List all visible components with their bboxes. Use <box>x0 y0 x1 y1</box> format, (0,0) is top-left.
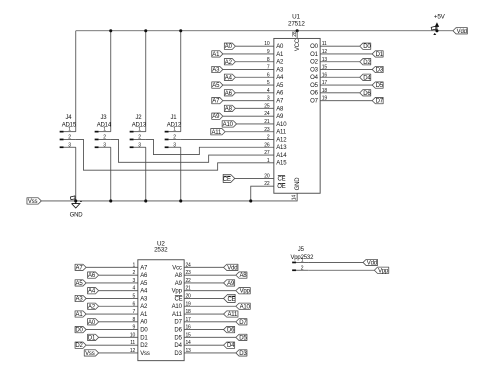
wire U1 O5 to D5 label <box>320 84 372 86</box>
svg-text:A0: A0 <box>276 44 284 50</box>
svg-text:A5: A5 <box>212 83 220 89</box>
svg-text:A13: A13 <box>276 145 287 151</box>
svg-text:D6: D6 <box>363 91 371 97</box>
svg-text:3: 3 <box>173 142 176 148</box>
svg-text:GND: GND <box>70 213 84 219</box>
wire A10 label to U1 <box>237 123 274 125</box>
svg-text:27512: 27512 <box>288 21 305 28</box>
junction <box>109 29 112 32</box>
global label D6 (U2 right) <box>224 326 235 332</box>
svg-text:A3: A3 <box>212 68 220 74</box>
svg-text:A11: A11 <box>211 130 222 136</box>
junction on ground rail <box>179 199 182 202</box>
J2 pin 3 <box>130 146 134 148</box>
J4 pin 3 <box>60 146 64 148</box>
svg-text:CE: CE <box>223 177 231 183</box>
global label D1 (U2 left) <box>88 334 99 340</box>
svg-text:A7: A7 <box>276 99 284 105</box>
svg-text:O1: O1 <box>310 52 318 58</box>
svg-text:A9: A9 <box>276 114 284 120</box>
global label Vdd (U2 right) <box>224 264 238 270</box>
svg-text:D2: D2 <box>363 60 371 66</box>
svg-text:Vdd: Vdd <box>457 29 467 35</box>
global label D7 (U2 right) <box>236 319 247 325</box>
wire A4 label to U1 <box>235 76 273 78</box>
svg-text:A3: A3 <box>140 296 148 302</box>
svg-text:Vss: Vss <box>140 351 150 357</box>
global label D1 (U1) <box>372 51 383 57</box>
svg-text:D6: D6 <box>174 328 182 334</box>
global label A3 (U2 left) <box>75 295 86 301</box>
svg-text:A4: A4 <box>225 75 233 81</box>
svg-text:A10: A10 <box>223 122 234 128</box>
wire U1 O7 to D7 label <box>320 100 372 102</box>
wire rail to J2 pin 1 <box>145 31 147 132</box>
global label A5 (U1) <box>212 82 223 88</box>
wire rail to J4 pin 1 <box>75 31 77 132</box>
top +5V power rail <box>76 30 453 32</box>
wire J1 pin 2 to U1 A12 <box>181 138 274 140</box>
J3 pin 3 <box>95 146 99 148</box>
svg-text:A7: A7 <box>140 265 148 271</box>
wire A11 label to U1 <box>225 131 274 133</box>
svg-text:J5: J5 <box>298 247 305 253</box>
wire rail to J1 pin 1 <box>180 31 182 132</box>
global label A3 (U1) <box>212 66 223 72</box>
svg-text:A6: A6 <box>276 91 284 97</box>
svg-text:3: 3 <box>138 142 141 148</box>
global label CE (U1) <box>223 174 235 182</box>
svg-text:J1: J1 <box>170 115 177 121</box>
global label A11 (U2 right) <box>224 311 238 317</box>
junction OE-gnd <box>249 199 252 202</box>
wire CE label to U1 <box>235 177 274 179</box>
wire A0 label to U1 <box>235 45 273 47</box>
svg-text:A7: A7 <box>212 99 220 105</box>
power label Vss (left) <box>27 198 41 204</box>
wire A0 label to U2 pin 8 <box>99 321 138 323</box>
global label A2 (U1) <box>224 59 235 65</box>
svg-text:A5: A5 <box>276 83 284 89</box>
svg-text:1: 1 <box>173 127 176 133</box>
PWR_FLAG glyph below wire <box>433 33 436 35</box>
wire D0 label to U2 pin 9 <box>86 329 138 331</box>
svg-text:CE: CE <box>227 297 235 303</box>
global label D6 (U1) <box>360 90 371 96</box>
svg-text:Vdd: Vdd <box>367 261 377 267</box>
+5V power symbol <box>435 23 438 31</box>
svg-text:O4: O4 <box>310 75 318 81</box>
wire U2 pin 19 to A10 label <box>184 305 236 307</box>
svg-text:A12: A12 <box>276 137 287 143</box>
svg-text:Vcc: Vcc <box>172 265 182 271</box>
svg-text:D4: D4 <box>363 75 371 81</box>
wire J2 pin 3 to ground rail <box>145 147 147 201</box>
power label Vdd (top right) <box>453 28 467 34</box>
svg-text:O6: O6 <box>310 91 318 97</box>
wire U2 pin 23 to A8 label <box>184 274 236 276</box>
wire A6 label to U1 <box>235 92 273 94</box>
svg-text:A14: A14 <box>276 153 287 159</box>
svg-text:Vpp: Vpp <box>378 268 389 274</box>
global label A7 (U2 left) <box>75 264 86 270</box>
svg-text:D5: D5 <box>376 83 384 89</box>
global label A10 (U2 right) <box>236 303 250 309</box>
svg-text:3: 3 <box>103 142 106 148</box>
svg-text:2: 2 <box>103 135 106 141</box>
svg-text:D0: D0 <box>140 328 148 334</box>
svg-text:J2: J2 <box>135 115 142 121</box>
svg-text:D7: D7 <box>239 320 247 326</box>
wire A1 label to U2 pin 7 <box>86 313 138 315</box>
svg-text:A6: A6 <box>88 273 96 279</box>
PWR_FLAG glyph above wire <box>431 26 436 31</box>
svg-text:J4: J4 <box>65 115 72 121</box>
svg-text:D1: D1 <box>376 52 384 58</box>
ground symbol GND <box>72 202 80 208</box>
global label Vpp (U2 right) <box>236 288 250 294</box>
global label A8 (U2 right) <box>236 272 247 278</box>
global label A0 (U2 left) <box>88 319 99 325</box>
svg-text:VCC: VCC <box>295 38 301 51</box>
svg-text:D2: D2 <box>75 343 83 349</box>
svg-text:A8: A8 <box>175 273 183 279</box>
svg-text:O2: O2 <box>310 60 318 66</box>
wire rail to J3 pin 1 <box>110 31 112 132</box>
svg-text:J3: J3 <box>100 115 107 121</box>
svg-text:A9: A9 <box>212 114 220 120</box>
svg-text:A1: A1 <box>212 52 220 58</box>
svg-text:A7: A7 <box>76 265 84 271</box>
svg-text:Vpp: Vpp <box>172 289 183 295</box>
svg-text:1: 1 <box>68 127 71 133</box>
junction at +5V <box>435 29 438 32</box>
global label A2 (U2 left) <box>88 303 99 309</box>
global label A0 (U1) <box>224 43 235 49</box>
global label D4 (U1) <box>360 74 371 80</box>
svg-text:A2: A2 <box>88 304 96 310</box>
svg-text:2532: 2532 <box>154 246 168 253</box>
svg-text:O5: O5 <box>310 83 318 89</box>
svg-text:2: 2 <box>68 135 71 141</box>
svg-text:D4: D4 <box>174 343 182 349</box>
wire A4 label to U2 pin 4 <box>99 290 138 292</box>
wire U2 pin 14 to D4 label <box>184 344 223 346</box>
svg-text:A6: A6 <box>140 273 148 279</box>
svg-text:CE: CE <box>174 296 182 302</box>
wire J5 pin 2 to Vpp label <box>308 269 374 271</box>
svg-text:D1: D1 <box>88 335 96 341</box>
svg-text:A11: A11 <box>276 130 287 136</box>
power label Vdd (J5) <box>363 259 377 265</box>
wire J4 pin 3 to ground rail <box>75 147 77 201</box>
svg-text:D5: D5 <box>239 335 247 341</box>
J1 pin 3 <box>165 146 169 148</box>
svg-text:A5: A5 <box>140 281 148 287</box>
svg-text:A0: A0 <box>225 44 233 50</box>
power label Vpp (J5) <box>374 267 388 273</box>
svg-text:D7: D7 <box>174 320 182 326</box>
svg-text:A11: A11 <box>227 312 238 318</box>
svg-text:D4: D4 <box>227 343 235 349</box>
junction on ground rail <box>144 199 147 202</box>
svg-text:A3: A3 <box>276 67 284 73</box>
wire U1 O0 to D0 label <box>320 45 360 47</box>
global label A4 (U2 left) <box>88 288 99 294</box>
wire A1 label to U1 <box>223 53 274 55</box>
junction on ground rail <box>109 199 112 202</box>
J5 pin 2 <box>292 269 296 271</box>
global label D4 (U2 right) <box>224 342 235 348</box>
svg-text:A1: A1 <box>76 312 84 318</box>
global label A1 (U1) <box>212 51 223 57</box>
wire J5 pin 1 to Vdd label <box>308 261 363 263</box>
svg-text:A0: A0 <box>140 320 148 326</box>
wire U2 pin 15 to D5 label <box>184 336 236 338</box>
global label A7 (U1) <box>212 97 223 103</box>
global label A5 (U2 left) <box>75 280 86 286</box>
global label D3 (U1) <box>372 66 383 72</box>
svg-text:+5V: +5V <box>434 14 446 21</box>
U1 pin 14 GND wire <box>41 193 297 201</box>
svg-text:A4: A4 <box>88 289 96 295</box>
svg-text:A2: A2 <box>276 60 284 66</box>
global label D2 (U2 left) <box>75 342 86 348</box>
svg-text:Vpp: Vpp <box>240 289 251 295</box>
svg-text:GND: GND <box>295 177 301 191</box>
EPROM U1 body <box>274 38 320 193</box>
EPROM U2 body <box>138 260 184 361</box>
svg-text:D1: D1 <box>140 335 148 341</box>
svg-text:3: 3 <box>68 142 71 148</box>
junction on ground rail <box>74 199 77 202</box>
global label CE (U2 right) <box>224 294 236 302</box>
junction <box>179 29 182 32</box>
wire U2 pin 17 to D7 label <box>184 321 236 323</box>
svg-text:A10: A10 <box>276 122 287 128</box>
global label A9 (U2 right) <box>224 280 235 286</box>
wire Vss label to U2 pin 12 <box>99 352 138 354</box>
junction at U1 VCC <box>296 29 299 32</box>
svg-text:A10: A10 <box>172 304 183 310</box>
wire U2 pin 18 to A11 label <box>184 313 223 315</box>
wire U1 O6 to D6 label <box>320 92 360 94</box>
wire U2 pin 22 to A9 label <box>184 282 223 284</box>
wire U2 pin 13 to D3 label <box>184 352 236 354</box>
svg-text:A9: A9 <box>227 281 235 287</box>
wire J4 pin 2 to U1 A15 <box>76 139 274 170</box>
wire U2 pin 16 to D6 label <box>184 329 223 331</box>
PWR_FLAG glyph at GND <box>70 196 75 201</box>
wire J3 pin 2 to U1 A14 <box>111 139 274 162</box>
wire U1 O1 to D1 label <box>320 53 372 55</box>
svg-text:A9: A9 <box>175 281 183 287</box>
svg-text:A6: A6 <box>225 91 233 97</box>
wire U2 pin 20 to CE label <box>184 297 223 299</box>
svg-text:1: 1 <box>103 127 106 133</box>
svg-text:A5: A5 <box>76 281 84 287</box>
svg-text:A11: A11 <box>172 312 183 318</box>
svg-text:2: 2 <box>138 135 141 141</box>
svg-text:Vdd: Vdd <box>227 265 237 271</box>
wire J3 pin 3 to ground rail <box>110 147 112 201</box>
global label D0 (U2 left) <box>75 326 86 332</box>
svg-text:A4: A4 <box>276 75 284 81</box>
global label D2 (U1) <box>360 59 371 65</box>
J3 pin 1 <box>95 131 99 133</box>
global label A9 (U1) <box>212 113 223 119</box>
svg-text:Vss: Vss <box>85 351 95 357</box>
J1 pin 1 <box>165 131 169 133</box>
svg-text:14: 14 <box>291 195 297 201</box>
wire A2 label to U2 pin 6 <box>99 305 138 307</box>
wire A6 label to U2 pin 2 <box>99 274 138 276</box>
svg-text:A10: A10 <box>240 304 251 310</box>
svg-text:A8: A8 <box>239 273 247 279</box>
U1 pin 28 VCC wire <box>296 31 298 39</box>
wire A5 label to U2 pin 3 <box>86 282 138 284</box>
wire A5 label to U1 <box>223 84 274 86</box>
wire U2 pin 21 to Vpp label <box>184 290 236 292</box>
svg-text:D0: D0 <box>363 44 371 50</box>
svg-text:D7: D7 <box>376 99 384 105</box>
svg-text:A15: A15 <box>276 161 287 167</box>
global label A1 (U2 left) <box>75 311 86 317</box>
svg-text:A2: A2 <box>225 60 233 66</box>
svg-text:28: 28 <box>292 31 298 37</box>
svg-text:2: 2 <box>301 265 304 271</box>
svg-text:1: 1 <box>301 258 304 264</box>
global label A4 (U1) <box>224 74 235 80</box>
svg-text:A4: A4 <box>140 289 148 295</box>
wire A7 label to U2 pin 1 <box>86 266 138 268</box>
svg-text:D3: D3 <box>376 68 384 74</box>
global label A6 (U2 left) <box>88 272 99 278</box>
wire D1 label to U2 pin 10 <box>99 336 138 338</box>
wire A2 label to U1 <box>235 61 273 63</box>
global label A6 (U1) <box>224 90 235 96</box>
svg-text:A2: A2 <box>140 304 148 310</box>
global label A11 (U1) <box>211 129 225 135</box>
svg-text:D6: D6 <box>227 328 235 334</box>
svg-text:O0: O0 <box>310 44 318 50</box>
J4 pin 1 <box>60 131 64 133</box>
svg-text:O3: O3 <box>310 67 318 73</box>
svg-text:D0: D0 <box>75 328 83 334</box>
svg-text:D3: D3 <box>239 351 247 357</box>
global label A8 (U1) <box>224 105 235 111</box>
svg-text:D2: D2 <box>140 343 148 349</box>
J3 pin 2 <box>95 138 99 140</box>
wire A8 label to U1 <box>235 107 273 109</box>
global label A10 (U1) <box>222 121 236 127</box>
wire U1 O4 to D4 label <box>320 76 360 78</box>
svg-text:A3: A3 <box>76 297 84 303</box>
global label D7 (U1) <box>372 97 383 103</box>
global label D5 (U1) <box>372 82 383 88</box>
global label Vss (U2 left) <box>84 350 98 356</box>
svg-text:OE: OE <box>277 184 285 190</box>
svg-text:A0: A0 <box>88 320 96 326</box>
junction <box>144 29 147 32</box>
svg-text:Vss: Vss <box>28 199 38 205</box>
wire D2 label to U2 pin 11 <box>86 344 138 346</box>
wire U1 O3 to D3 label <box>320 68 372 70</box>
svg-text:1: 1 <box>138 127 141 133</box>
svg-text:CE: CE <box>277 176 285 182</box>
svg-text:U1: U1 <box>292 14 300 21</box>
wire J2 pin 2 to U1 A13 <box>146 139 274 154</box>
svg-text:D5: D5 <box>174 335 182 341</box>
svg-text:A1: A1 <box>276 52 284 58</box>
wire A7 label to U1 <box>223 100 274 102</box>
J5 pin 1 <box>292 261 296 263</box>
svg-text:2: 2 <box>173 135 176 141</box>
global label D0 (U1) <box>360 43 371 49</box>
wire A9 label to U1 <box>223 115 274 117</box>
global label D3 (U2 right) <box>236 350 247 356</box>
J2 pin 1 <box>130 131 134 133</box>
J4 pin 2 <box>60 138 64 140</box>
wire U2 pin 24 to Vdd label <box>184 266 223 268</box>
svg-text:A8: A8 <box>225 106 233 112</box>
svg-text:D3: D3 <box>174 351 182 357</box>
wire U1 OE to ground rail <box>251 186 274 201</box>
wire A3 label to U2 pin 5 <box>86 297 138 299</box>
global label D5 (U2 right) <box>236 334 247 340</box>
wire A3 label to U1 <box>223 68 274 70</box>
svg-text:O7: O7 <box>310 99 318 105</box>
J1 pin 2 <box>165 138 169 140</box>
svg-text:A8: A8 <box>276 106 284 112</box>
J2 pin 2 <box>130 138 134 140</box>
wire U1 O2 to D2 label <box>320 61 360 63</box>
wire J1 pin 3 to ground rail <box>180 147 182 201</box>
svg-text:A1: A1 <box>140 312 148 318</box>
